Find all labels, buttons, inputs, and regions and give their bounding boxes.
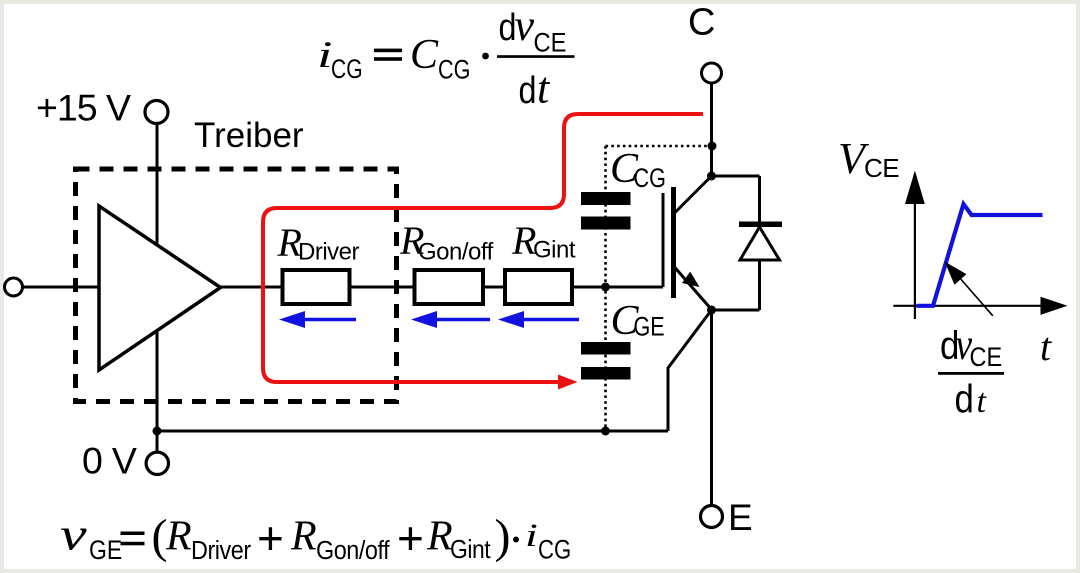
- svg-text:i: i: [317, 35, 332, 76]
- capacitor C_GE: [581, 342, 631, 380]
- svg-text:CG: CG: [538, 536, 571, 566]
- dotted net: parasitic capacitance branch horizontal to collector: [606, 145, 713, 148]
- svg-text:Gon/off: Gon/off: [316, 537, 390, 565]
- input terminal circle: [5, 278, 23, 296]
- diode triangle: [740, 227, 780, 260]
- svg-text:CG: CG: [438, 55, 470, 85]
- gate bar: [662, 193, 665, 287]
- wire input to driver: [23, 286, 100, 289]
- graph y axis: [905, 171, 925, 320]
- svg-text:d: d: [519, 70, 537, 112]
- red current loop arrowhead: [558, 375, 578, 390]
- C terminal circle: [702, 63, 722, 83]
- svg-text:C: C: [688, 2, 715, 44]
- label dv_CE/dt: [938, 320, 1004, 421]
- svg-text:Driver: Driver: [298, 239, 360, 266]
- svg-text:GE: GE: [89, 535, 122, 565]
- svg-text:GE: GE: [634, 312, 665, 342]
- wire diode vertical: [758, 176, 761, 310]
- svg-text:i: i: [525, 516, 538, 553]
- capacitor C_CG: [581, 192, 631, 230]
- svg-text:+: +: [257, 512, 284, 564]
- equation label v_GE = (R_Driver + R_Gon/off + R_Gint) * i_CG: [60, 508, 571, 565]
- wire emitter to 0V rail: [668, 310, 712, 431]
- Treiber driver dashed box: [76, 169, 397, 402]
- annotation arrow to rising edge: [945, 262, 993, 316]
- svg-text:+15 V: +15 V: [36, 87, 131, 129]
- label V_CE axis: [838, 134, 899, 183]
- emitter branch: [674, 267, 712, 310]
- resistor R_Driver: [283, 270, 350, 304]
- transistor Q1 IGBT: [663, 176, 712, 310]
- svg-text:Gon/off: Gon/off: [418, 239, 494, 266]
- svg-text:CE: CE: [970, 343, 1003, 373]
- svg-text:v: v: [60, 508, 87, 560]
- diode D1 freewheeling: [712, 176, 783, 310]
- svg-text:R: R: [165, 514, 192, 560]
- label C_GE: [611, 298, 665, 344]
- blue current arrow under R_Driver: [279, 311, 356, 328]
- diode cathode bar: [739, 222, 782, 228]
- svg-text:+: +: [397, 512, 424, 564]
- blue current arrow under R_Gint: [498, 311, 579, 328]
- svg-text:t: t: [1040, 324, 1052, 369]
- svg-text:Driver: Driver: [191, 537, 251, 565]
- svg-text:t: t: [977, 383, 988, 420]
- collector branch: [674, 176, 712, 214]
- resistor R_Gon/off: [415, 270, 484, 304]
- svg-text:CG: CG: [634, 164, 666, 194]
- node junction emitter: [707, 306, 716, 315]
- 0V terminal circle: [146, 452, 168, 474]
- svg-text:C: C: [410, 32, 439, 78]
- svg-text:d: d: [955, 376, 974, 421]
- wire collector to C terminal: [710, 84, 713, 176]
- label R_Gon/off: [399, 218, 494, 266]
- wire 0V rail: [157, 430, 668, 433]
- channel bar: [671, 187, 676, 298]
- wire diode bottom stub: [712, 309, 760, 312]
- svg-text:CE: CE: [534, 28, 567, 58]
- graph V_CE vs t: [838, 134, 1068, 421]
- svg-text:Gint: Gint: [450, 536, 491, 565]
- red i_CG current loop path: [263, 114, 703, 382]
- svg-text:CG: CG: [331, 55, 363, 85]
- wire diode top stub: [712, 175, 760, 178]
- node junction 0V rail / capacitor branch: [601, 427, 610, 436]
- wire driver triangle to 0V terminal: [156, 331, 159, 452]
- E terminal circle: [701, 506, 723, 528]
- svg-text:Gint: Gint: [533, 237, 576, 264]
- resistor R_Gint: [505, 270, 572, 304]
- svg-text:): ): [495, 510, 511, 563]
- blue V_CE curve: [917, 204, 1043, 306]
- wire gate: driver output to IGBT gate: [221, 286, 664, 289]
- graph x axis: [893, 297, 1067, 315]
- +15V terminal circle: [145, 101, 168, 124]
- node junction collector / diode: [707, 172, 716, 181]
- equation label i_CG = C_CG * dv_CE/dt: [317, 1, 575, 113]
- dotted net: parasitic capacitance branch vertical: [604, 146, 607, 430]
- blue current arrow under R_Gon/off: [411, 311, 490, 328]
- svg-text:t: t: [537, 64, 551, 113]
- svg-text:E: E: [728, 497, 753, 538]
- wire +15V supply to driver triangle: [156, 124, 159, 245]
- node junction gate wire / capacitor branch: [601, 283, 610, 292]
- label C_CG: [610, 146, 666, 194]
- driver amplifier triangle U1: [99, 206, 221, 370]
- svg-text:Treiber: Treiber: [194, 116, 304, 155]
- svg-text:CE: CE: [864, 153, 899, 183]
- svg-text:v: v: [515, 1, 535, 50]
- node junction 0V rail / triangle: [153, 427, 162, 436]
- IGBT emitter arrowhead: [682, 272, 700, 287]
- svg-text:R: R: [290, 514, 317, 560]
- label R_Gint: [511, 218, 576, 264]
- wire emitter to E terminal: [710, 310, 713, 506]
- svg-text:R: R: [426, 514, 453, 560]
- label R_Driver: [277, 220, 360, 266]
- node junction collector / dotted branch: [708, 142, 717, 151]
- svg-text:0 V: 0 V: [82, 440, 137, 482]
